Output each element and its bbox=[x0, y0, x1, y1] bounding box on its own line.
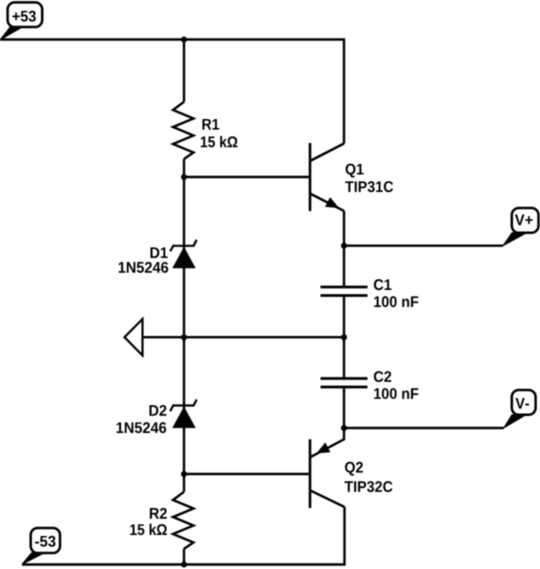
wire mid node to D2 and Q2 base node bbox=[183, 337, 185, 474]
label C1 bbox=[374, 279, 392, 290]
wire top rail to R1 bbox=[183, 40, 185, 102]
value 1N5246 (D2) bbox=[117, 422, 167, 433]
value 1N5246 (D1) bbox=[119, 262, 169, 273]
transistor Q2 (PNP TIP32C) bbox=[310, 428, 345, 508]
wire top rail from +53 to Q1 collector bbox=[0, 40, 344, 144]
wire base node to D1 and mid node bbox=[183, 177, 185, 337]
wire bottom rail bbox=[22, 507, 345, 565]
junction node R1 / Q1 base bbox=[181, 174, 187, 180]
net arrow marker (open triangle) bbox=[125, 319, 143, 356]
label Q2 bbox=[345, 462, 363, 476]
wire mid rail bbox=[143, 336, 345, 338]
wire C1 bottom to mid node bbox=[343, 296, 345, 338]
resistor R2 bbox=[173, 492, 194, 549]
resistor R1 bbox=[173, 102, 194, 159]
wire C2 bottom to V- node bbox=[343, 387, 345, 428]
label R1 bbox=[202, 119, 219, 130]
value TIP32C bbox=[345, 481, 393, 492]
junction node D2 / Q2 base bbox=[181, 471, 187, 477]
capacitor C2 bbox=[321, 379, 368, 388]
label R2 bbox=[150, 508, 167, 519]
wire Q1 base bbox=[184, 176, 310, 178]
transistor Q1 (NPN TIP31C) bbox=[310, 143, 344, 211]
wire V- bbox=[344, 427, 504, 429]
value 15 kΩ (R2) bbox=[130, 524, 167, 535]
value 100 nF (C1) bbox=[374, 296, 418, 307]
power flag -53 bbox=[22, 528, 60, 564]
label D2 bbox=[149, 405, 166, 416]
label C2 bbox=[374, 371, 391, 382]
value TIP31C bbox=[345, 181, 393, 192]
wire Q2 base bbox=[184, 473, 310, 475]
label D1 bbox=[150, 247, 167, 258]
wire R2 to bottom rail bbox=[183, 549, 185, 565]
junction node bottom rail / R2 bbox=[181, 561, 187, 567]
junction node V- / Q2 emitter bbox=[341, 425, 347, 431]
junction node top rail / R1 bbox=[181, 36, 187, 42]
zener diode D2 bbox=[170, 400, 197, 429]
junction node mid / C1 C2 bbox=[341, 334, 347, 340]
wire C1 top bbox=[343, 246, 345, 287]
value 15 kΩ (R1) bbox=[201, 136, 238, 147]
wire R1 to base node bbox=[183, 159, 185, 177]
capacitor C1 bbox=[321, 287, 368, 296]
wire C2 top bbox=[343, 337, 345, 378]
wire D2 node to R2 bbox=[183, 474, 185, 492]
net flag V+ bbox=[503, 208, 539, 246]
wire V+ bbox=[344, 244, 503, 246]
label Q1 bbox=[346, 164, 364, 178]
wire Q1 emitter to V+ node bbox=[343, 211, 345, 246]
junction node mid / D1 D2 bbox=[181, 334, 187, 340]
zener diode D1 bbox=[170, 240, 197, 269]
net flag V- bbox=[504, 390, 536, 428]
junction node V+ / C1 bbox=[341, 243, 347, 249]
value 100 nF (C2) bbox=[374, 388, 418, 399]
power flag +53 bbox=[0, 2, 42, 40]
